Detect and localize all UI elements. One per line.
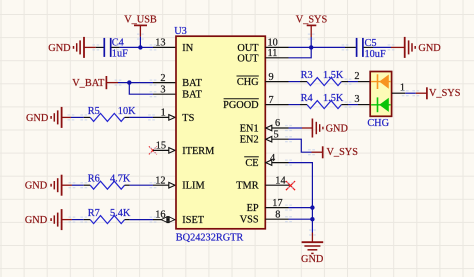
ground GND7 (bottom earth) <box>302 233 324 254</box>
wire R7 to pin 16 <box>130 219 153 221</box>
svg-text:CE: CE <box>245 158 258 169</box>
svg-text:GND: GND <box>418 43 441 54</box>
pin 9 CHG <box>265 81 288 83</box>
wire C5 to GND5 <box>373 46 391 48</box>
ground GND1 (top-left, at C4) <box>74 37 96 58</box>
wire junction to pin 2 <box>129 82 153 84</box>
svg-text:GND: GND <box>48 43 71 54</box>
svg-text:R7: R7 <box>88 208 100 219</box>
svg-text:R5: R5 <box>88 106 100 117</box>
svg-text:VSS: VSS <box>240 215 259 226</box>
resistor R4 <box>300 93 348 108</box>
wire EN2 to V_SYS <box>289 139 312 152</box>
svg-text:11: 11 <box>268 48 278 59</box>
ground GND3 (at R6) <box>51 175 72 196</box>
no-ERC marker at ITERM <box>149 146 157 154</box>
pin 13 IN <box>153 46 176 48</box>
svg-text:BQ24232RGTR: BQ24232RGTR <box>176 232 244 243</box>
pin 10 OUT <box>265 46 288 48</box>
power port V_BAT <box>72 76 118 89</box>
svg-text:2: 2 <box>160 73 165 84</box>
wire R4 to LED pin 3 <box>348 104 358 106</box>
node junction at IN <box>138 45 142 49</box>
node junction VSS <box>310 217 314 221</box>
pin 16 ISET <box>153 219 176 221</box>
svg-text:EN2: EN2 <box>240 135 259 146</box>
pin 6 EN1 <box>265 127 288 129</box>
node junction EP <box>310 205 314 209</box>
node junction at V_SYS <box>309 45 313 49</box>
svg-text:GND: GND <box>301 254 324 265</box>
svg-text:8: 8 <box>275 209 280 220</box>
pin 8 VSS <box>265 218 288 220</box>
pin 12 ILIM <box>153 184 176 186</box>
svg-text:BAT: BAT <box>182 78 202 89</box>
wire GND2 to R5 <box>71 116 84 118</box>
svg-text:14: 14 <box>275 175 285 186</box>
pin 3 BAT <box>153 93 176 95</box>
LED orange diode <box>371 74 391 89</box>
wire GND3 to R6 <box>72 184 84 186</box>
svg-text:OUT: OUT <box>237 43 259 54</box>
pin 11 OUT <box>265 57 288 59</box>
svg-text:CHG: CHG <box>367 118 389 129</box>
ground GND6 (at EN1) <box>302 119 323 138</box>
power port V_SYS (right) <box>416 87 461 99</box>
power port V_USB <box>124 15 157 37</box>
svg-text:ISET: ISET <box>182 215 204 226</box>
LED pin 2 lead <box>358 81 370 83</box>
resistor R6 <box>84 174 131 190</box>
svg-text:IN: IN <box>182 43 193 54</box>
power port V_SYS (top) <box>296 14 328 37</box>
svg-text:CHG: CHG <box>237 77 259 88</box>
svg-text:3: 3 <box>354 94 359 105</box>
svg-text:V_SYS: V_SYS <box>429 88 461 99</box>
pin 14 TMR <box>265 184 290 186</box>
svg-text:BAT: BAT <box>182 90 202 101</box>
svg-text:OUT: OUT <box>237 53 259 64</box>
wire pin 11 up <box>289 47 312 57</box>
svg-text:10K: 10K <box>118 106 136 117</box>
LED green diode <box>371 97 391 112</box>
wire junction down to pin 3 <box>129 83 153 95</box>
resistor R7 <box>84 208 131 224</box>
pin 4 CE <box>265 162 288 164</box>
wire EN1 to GND6 <box>289 127 303 129</box>
svg-text:1: 1 <box>161 107 166 118</box>
wire junction to pin 13 <box>140 46 153 48</box>
svg-text:2: 2 <box>354 71 359 82</box>
wire R3 to LED pin 2 <box>348 81 358 83</box>
LED D1 CHG body <box>370 72 391 117</box>
svg-text:GND: GND <box>25 181 48 192</box>
pin 1 TS <box>153 116 176 118</box>
pin 17 EP <box>265 207 288 209</box>
svg-text:1.5K: 1.5K <box>323 70 344 81</box>
ground GND5 (right of C5) <box>391 37 415 58</box>
wire V_USB to junction <box>139 37 141 48</box>
svg-text:EP: EP <box>247 203 259 214</box>
capacitor C4 <box>96 38 128 60</box>
wire R5 to pin 1 <box>130 116 153 118</box>
svg-text:13: 13 <box>155 38 165 49</box>
LED pin 1 <box>392 92 405 94</box>
wire GND4 to R7 <box>72 219 84 221</box>
wire OUT rail <box>289 46 346 48</box>
resistor R5 <box>84 106 136 122</box>
wire VSS to ground rail <box>289 218 313 220</box>
svg-text:V_USB: V_USB <box>124 15 157 26</box>
power port V_SYS (at EN2) <box>312 146 359 158</box>
svg-text:7: 7 <box>269 95 274 106</box>
wire pin 9 to R3 <box>289 81 301 83</box>
ground GND4 (at R7) <box>51 209 72 230</box>
wire V_BAT to junction <box>118 82 129 84</box>
svg-text:16: 16 <box>155 210 165 221</box>
svg-text:TMR: TMR <box>236 181 258 192</box>
pin 5 EN2 <box>265 138 288 140</box>
ground GND2 (at R5) <box>51 107 71 128</box>
svg-text:1.5K: 1.5K <box>323 93 344 104</box>
wire pin 7 to R4 <box>289 104 301 106</box>
svg-text:4: 4 <box>270 153 275 164</box>
wire LED pin 1 to V_SYS <box>405 92 416 94</box>
svg-text:9: 9 <box>269 72 274 83</box>
svg-text:1: 1 <box>400 82 405 93</box>
svg-text:10: 10 <box>268 38 278 49</box>
node junction at BAT <box>127 80 131 84</box>
wire V_SYS to junction <box>310 37 312 47</box>
svg-text:5.4K: 5.4K <box>110 208 131 219</box>
svg-text:R4: R4 <box>301 93 313 104</box>
wire R6 to pin 12 <box>130 184 153 186</box>
svg-text:ILIM: ILIM <box>182 181 204 192</box>
svg-text:5: 5 <box>274 129 279 140</box>
svg-text:EN1: EN1 <box>240 124 259 135</box>
svg-text:R3: R3 <box>301 70 313 81</box>
no-ERC marker at TMR <box>286 181 295 190</box>
svg-text:V_SYS: V_SYS <box>296 14 328 25</box>
svg-text:10uF: 10uF <box>365 49 386 60</box>
svg-text:3: 3 <box>160 84 165 95</box>
svg-text:GND: GND <box>326 124 349 135</box>
svg-text:4.7K: 4.7K <box>110 174 131 185</box>
LED pin 3 lead <box>358 104 370 106</box>
resistor R3 <box>300 70 348 85</box>
wire CE down to ground rail <box>289 163 313 233</box>
wire C4 to junction <box>120 46 141 48</box>
capacitor C5 <box>345 38 386 60</box>
svg-text:ITERM: ITERM <box>182 146 214 157</box>
wire connection markers <box>68 34 420 236</box>
svg-text:V_SYS: V_SYS <box>327 147 359 158</box>
svg-text:V_BAT: V_BAT <box>72 78 105 89</box>
IC U3 BQ24232RGTR <box>176 36 265 229</box>
pin 7 PGOOD <box>265 104 288 106</box>
svg-text:6: 6 <box>275 118 280 129</box>
svg-text:17: 17 <box>272 198 282 209</box>
svg-text:12: 12 <box>155 175 165 186</box>
pin 15 ITERM <box>153 149 176 151</box>
svg-text:GND: GND <box>26 113 49 124</box>
svg-text:U3: U3 <box>174 26 187 37</box>
svg-text:R6: R6 <box>88 174 100 185</box>
svg-text:PGOOD: PGOOD <box>223 100 259 111</box>
wire EP to ground rail <box>289 207 313 209</box>
svg-text:GND: GND <box>25 215 48 226</box>
svg-text:TS: TS <box>182 113 194 124</box>
svg-text:1uF: 1uF <box>112 48 128 59</box>
svg-text:15: 15 <box>156 140 166 151</box>
pin 2 BAT <box>153 82 176 84</box>
